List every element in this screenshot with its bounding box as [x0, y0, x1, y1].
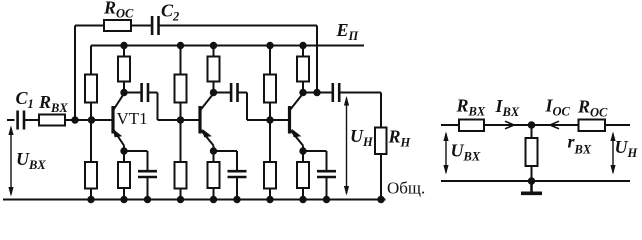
node VT1 base / bias divider [88, 116, 95, 123]
junction bypass cap / ground rail (stage 1) [144, 196, 151, 203]
svg-text:RH: RH [388, 127, 412, 150]
arrow U_H (equivalent) [610, 132, 615, 175]
junction bias chain / ground rail (stage 3) [266, 196, 273, 203]
node base (stage 2) [177, 116, 184, 123]
junction bypass cap / ground rail (stage 2) [233, 196, 240, 203]
resistor lower bias (stage 1) [85, 162, 97, 189]
arrow U_BX input voltage [8, 126, 13, 197]
wire E_P supply rail [91, 45, 364, 47]
wire emitter down (stage 3) [302, 146, 304, 163]
resistor lower bias (stage 3) [264, 162, 276, 189]
resistor lower bias (stage 2) [175, 162, 187, 189]
wire bottom rail (equivalent circuit) [441, 180, 630, 182]
node emitter (stage 3) [299, 147, 306, 154]
wire rail to collector resistor (stage 3) [302, 46, 304, 57]
arrow U_BX (equivalent) [443, 132, 448, 175]
wire node to r_BX [531, 125, 533, 138]
wire emitter to bypass cap (stage 2) [214, 150, 238, 152]
arrow I_OC current [550, 121, 559, 129]
wire emitter resistor to ground (stage 2) [213, 188, 215, 200]
wire feedback vertical right [316, 26, 318, 93]
junction rail / bias chain (stage 2) [177, 42, 184, 49]
node feedback tap at output [313, 89, 320, 96]
resistor emitter (stage 3) [297, 162, 309, 188]
capacitor output coupling [333, 83, 339, 102]
wire collector VT3 to output cap [303, 92, 332, 94]
svg-text:rBX: rBX [568, 132, 592, 157]
wire bypass cap to ground (stage 1) [147, 177, 149, 200]
node feedback junction at input [71, 116, 78, 123]
junction rail / collector resistor (stage 3) [299, 42, 306, 49]
svg-text:UH: UH [350, 126, 374, 149]
wire down to bypass cap (stage 1) [147, 151, 149, 171]
junction R_H / ground rail [377, 196, 384, 203]
svg-text:RBX: RBX [38, 92, 68, 115]
wire to VT3 base [247, 119, 290, 121]
svg-text:UBX: UBX [451, 141, 481, 164]
resistor r_BX (input resistance) [526, 138, 538, 166]
capacitor C2 (feedback) [152, 16, 158, 35]
svg-text:VT1: VT1 [117, 109, 148, 128]
svg-text:UH: UH [615, 137, 639, 160]
wire bias divider mid (stage 1) [90, 103, 92, 163]
resistor emitter (stage 2) [208, 162, 220, 188]
junction r_BX / bottom rail [528, 177, 535, 184]
svg-text:C1: C1 [16, 88, 34, 111]
node collector (stage 2) [210, 89, 217, 96]
resistor R_BX (equivalent) [459, 120, 484, 132]
wire rail to upper bias resistor (stage 3) [269, 46, 271, 75]
svg-text:IOC: IOC [545, 96, 571, 119]
svg-text:IBX: IBX [495, 96, 520, 119]
resistor collector load (stage 2) [208, 57, 220, 82]
wire C2 to output tap [159, 25, 318, 27]
wire coupling cap out (stage 1) [148, 92, 158, 94]
wire rail to upper bias resistor (stage 2) [180, 46, 182, 75]
transistor VT3 [290, 94, 304, 146]
node base (stage 3) [266, 116, 273, 123]
resistor collector load (stage 3) [297, 57, 309, 82]
wire input lead [7, 119, 15, 121]
resistor emitter (stage 1) [118, 162, 130, 188]
wire r_BX to bottom rail [531, 166, 533, 181]
resistor upper bias (stage 2) [175, 75, 187, 103]
junction rail / collector resistor (stage 2) [210, 42, 217, 49]
wire output cap to load [339, 92, 381, 94]
wire rail to upper bias resistor (stage 1) [90, 46, 92, 75]
wire top rail (equivalent circuit) [441, 124, 630, 126]
wire bypass cap to ground (stage 3) [326, 177, 328, 200]
svg-text:ROC: ROC [577, 97, 608, 120]
node collector (stage 3) [299, 89, 306, 96]
arrow I_BX current [505, 121, 514, 129]
wire feedback vertical left [74, 26, 76, 121]
wire R_OC to C2 [131, 25, 152, 27]
wire R_BX to VT1 base [65, 119, 113, 121]
capacitor C1 [18, 111, 24, 130]
node collector (stage 1) [120, 89, 127, 96]
resistor R_OC (feedback) [104, 20, 131, 31]
node emitter (stage 1) [120, 147, 127, 154]
wire lower bias to ground (stage 3) [269, 189, 271, 200]
wire emitter resistor to ground (stage 1) [123, 188, 125, 200]
wire R_H to ground rail [380, 154, 382, 200]
svg-text:EП: EП [336, 20, 360, 43]
junction bias chain / ground rail (stage 1) [87, 196, 94, 203]
junction emitter chain / ground rail (stage 3) [299, 196, 306, 203]
svg-text:Общ.: Общ. [387, 179, 425, 198]
wire bias divider mid (stage 2) [180, 103, 182, 163]
resistor upper bias (stage 1) [85, 75, 97, 103]
wire bypass cap to ground (stage 2) [236, 177, 238, 200]
wire collector to coupling cap (stage 2) [214, 92, 232, 94]
wire C1 to R_BX [24, 119, 39, 121]
wire down to next base level (stage 2) [246, 93, 248, 121]
ground symbol [521, 181, 542, 193]
wire emitter to bypass cap (stage 1) [124, 150, 148, 152]
transistor VT1 [113, 94, 124, 146]
wire emitter to bypass cap (stage 3) [303, 150, 327, 152]
wire emitter down (stage 2) [213, 146, 215, 163]
svg-text:RBX: RBX [456, 96, 486, 119]
wire down to bypass cap (stage 2) [236, 151, 238, 171]
wire emitter resistor to ground (stage 3) [302, 188, 304, 200]
capacitor emitter bypass (stage 2) [228, 171, 247, 177]
svg-text:C2: C2 [161, 1, 179, 24]
wire lower bias to ground (stage 1) [90, 189, 92, 200]
svg-text:ROC: ROC [103, 0, 134, 21]
wire down to bypass cap (stage 3) [326, 151, 328, 171]
junction bypass cap / ground rail (stage 3) [323, 196, 330, 203]
wire down to R_H [380, 93, 382, 128]
resistor R_BX (input) [39, 115, 65, 126]
wire feedback to R_OC [75, 25, 104, 27]
node emitter (stage 2) [210, 147, 217, 154]
wire collector to coupling cap (stage 1) [124, 92, 142, 94]
svg-text:UBX: UBX [16, 149, 46, 172]
junction emitter chain / ground rail (stage 1) [120, 196, 127, 203]
capacitor interstage coupling (stage 2-3) [231, 83, 237, 102]
wire bias divider mid (stage 3) [269, 103, 271, 163]
wire rail to collector resistor (stage 1) [123, 46, 125, 57]
junction rail / collector resistor (stage 1) [120, 42, 127, 49]
node summing point [528, 121, 536, 129]
transistor VT2 [200, 94, 214, 146]
resistor R_H (load) [375, 128, 387, 155]
wire coupling cap out (stage 2) [238, 92, 248, 94]
arrow U_H output voltage [344, 96, 349, 196]
wire collector resistor to collector (stage 1) [123, 82, 125, 93]
wire collector resistor to collector (stage 2) [213, 82, 215, 93]
wire emitter down (stage 1) [123, 146, 125, 163]
wire rail to collector resistor (stage 2) [213, 46, 215, 57]
wire common ground rail [3, 199, 386, 201]
junction emitter chain / ground rail (stage 2) [210, 196, 217, 203]
wire collector resistor to collector (stage 3) [302, 82, 304, 93]
capacitor emitter bypass (stage 1) [138, 171, 157, 177]
wire to VT2 base [158, 119, 201, 121]
resistor R_OC (equivalent) [579, 120, 606, 132]
wire lower bias to ground (stage 2) [180, 189, 182, 200]
junction bias chain / ground rail (stage 2) [177, 196, 184, 203]
resistor upper bias (stage 3) [264, 75, 276, 103]
capacitor interstage coupling (stage 1-2) [142, 83, 148, 102]
wire down to next base level (stage 1) [157, 93, 159, 121]
resistor collector load (stage 1) [118, 57, 130, 82]
capacitor emitter bypass (stage 3) [317, 171, 336, 177]
junction rail / bias chain (stage 3) [266, 42, 273, 49]
